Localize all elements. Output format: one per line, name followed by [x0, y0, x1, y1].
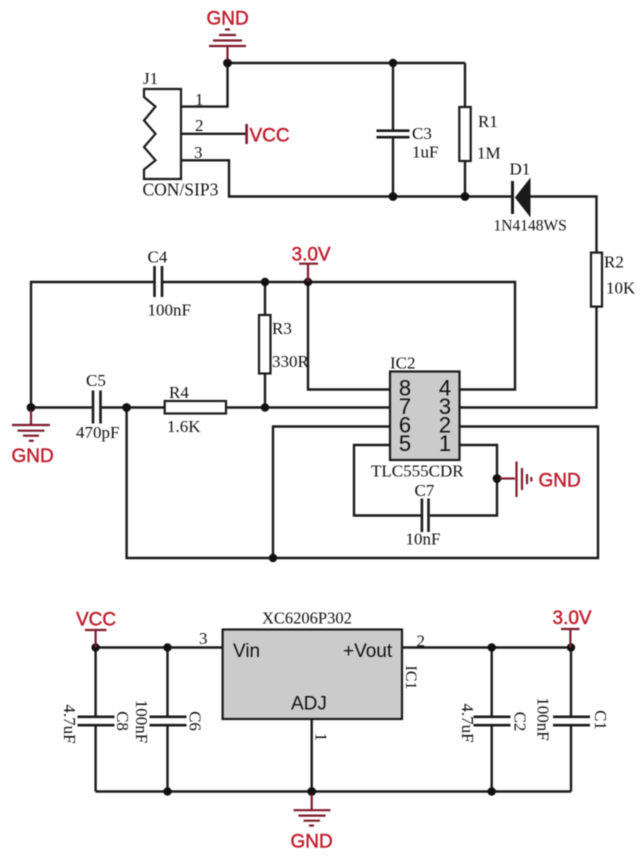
svg-text:1M: 1M — [477, 144, 501, 163]
svg-text:4.7uF: 4.7uF — [458, 703, 477, 742]
svg-text:GND: GND — [291, 832, 333, 853]
svg-text:C1: C1 — [591, 710, 610, 730]
svg-text:5: 5 — [399, 431, 411, 456]
svg-text:C7: C7 — [415, 481, 435, 500]
svg-text:D1: D1 — [510, 160, 531, 179]
svg-text:R4: R4 — [169, 383, 189, 402]
svg-text:R2: R2 — [604, 253, 624, 272]
svg-text:C8: C8 — [113, 711, 132, 731]
svg-text:TLC555CDR: TLC555CDR — [371, 462, 464, 481]
svg-text:+Vout: +Vout — [343, 641, 393, 662]
svg-text:R1: R1 — [478, 112, 498, 131]
svg-text:3: 3 — [194, 143, 203, 162]
svg-text:VCC: VCC — [250, 126, 290, 147]
svg-text:100nF: 100nF — [132, 700, 151, 743]
svg-text:CON/SIP3: CON/SIP3 — [143, 180, 219, 200]
svg-text:GND: GND — [539, 471, 581, 492]
svg-text:C2: C2 — [511, 712, 530, 732]
svg-text:2: 2 — [417, 632, 426, 651]
svg-text:100nF: 100nF — [534, 697, 553, 740]
svg-text:GND: GND — [12, 446, 54, 467]
svg-text:XC6206P302: XC6206P302 — [262, 609, 352, 628]
svg-text:1uF: 1uF — [412, 143, 438, 162]
svg-text:4.7uF: 4.7uF — [60, 704, 79, 743]
svg-text:10nF: 10nF — [406, 530, 441, 549]
svg-text:470pF: 470pF — [76, 423, 119, 442]
svg-text:Vin: Vin — [233, 641, 260, 662]
svg-text:C3: C3 — [412, 124, 432, 143]
svg-text:ADJ: ADJ — [291, 694, 327, 715]
svg-text:C5: C5 — [86, 371, 106, 390]
svg-text:J1: J1 — [143, 69, 158, 88]
svg-text:VCC: VCC — [76, 610, 116, 631]
svg-text:C4: C4 — [148, 247, 168, 266]
svg-text:100nF: 100nF — [148, 301, 191, 320]
svg-text:2: 2 — [195, 116, 204, 135]
svg-text:330R: 330R — [272, 352, 310, 371]
svg-text:GND: GND — [207, 9, 249, 30]
svg-text:3.0V: 3.0V — [553, 608, 592, 629]
svg-text:1.6K: 1.6K — [167, 417, 201, 436]
svg-text:1: 1 — [195, 90, 204, 109]
svg-text:3.0V: 3.0V — [292, 245, 331, 266]
svg-text:R3: R3 — [272, 319, 292, 338]
svg-text:3: 3 — [199, 629, 208, 648]
svg-text:1: 1 — [439, 431, 451, 456]
svg-text:C6: C6 — [186, 711, 205, 731]
svg-text:IC2: IC2 — [390, 354, 416, 373]
svg-text:IC1: IC1 — [402, 666, 419, 690]
svg-text:1N4148WS: 1N4148WS — [494, 218, 567, 235]
svg-text:1: 1 — [312, 733, 331, 742]
svg-text:10K: 10K — [606, 278, 636, 297]
